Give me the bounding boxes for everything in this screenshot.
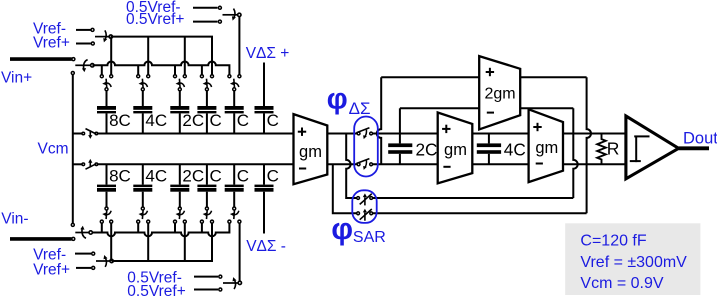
svg-text:φ: φ [327, 83, 348, 116]
svg-text:ΔΣ: ΔΣ [349, 99, 371, 118]
svg-text:R: R [607, 138, 620, 158]
svg-text:φ: φ [331, 212, 353, 246]
svg-text:Vcm: Vcm [38, 141, 69, 158]
svg-text:C: C [237, 111, 249, 130]
svg-text:gm: gm [299, 143, 322, 161]
svg-text:Vref+: Vref+ [33, 262, 70, 279]
svg-text:VΔΣ -: VΔΣ - [246, 238, 286, 255]
svg-text:2gm: 2gm [484, 86, 515, 103]
svg-text:C: C [267, 167, 279, 186]
svg-text:8C: 8C [109, 111, 131, 130]
svg-text:SAR: SAR [353, 229, 386, 246]
svg-text:2C: 2C [416, 139, 438, 159]
svg-text:2C: 2C [182, 111, 204, 130]
svg-text:C: C [210, 111, 222, 130]
svg-text:Dout: Dout [683, 130, 717, 148]
svg-text:gm: gm [535, 139, 558, 157]
svg-text:4C: 4C [145, 167, 167, 186]
svg-text:0.5Vref+: 0.5Vref+ [126, 11, 184, 28]
svg-text:4C: 4C [504, 139, 526, 159]
svg-text:VΔΣ +: VΔΣ + [246, 45, 290, 62]
svg-text:2C: 2C [182, 167, 204, 186]
svg-text:C: C [267, 111, 279, 130]
svg-text:Vin+: Vin+ [1, 69, 32, 86]
svg-text:Vref+: Vref+ [33, 34, 70, 51]
svg-text:gm: gm [444, 141, 467, 159]
svg-text:Vref = ±300mV: Vref = ±300mV [580, 254, 687, 271]
svg-text:0.5Vref+: 0.5Vref+ [127, 283, 185, 297]
svg-text:Vin-: Vin- [1, 210, 28, 227]
svg-text:C=120 fF: C=120 fF [580, 232, 646, 249]
svg-text:C: C [237, 167, 249, 186]
svg-text:C: C [210, 167, 222, 186]
svg-text:Vcm = 0.9V: Vcm = 0.9V [580, 275, 663, 292]
svg-text:4C: 4C [145, 111, 167, 130]
svg-text:8C: 8C [109, 167, 131, 186]
